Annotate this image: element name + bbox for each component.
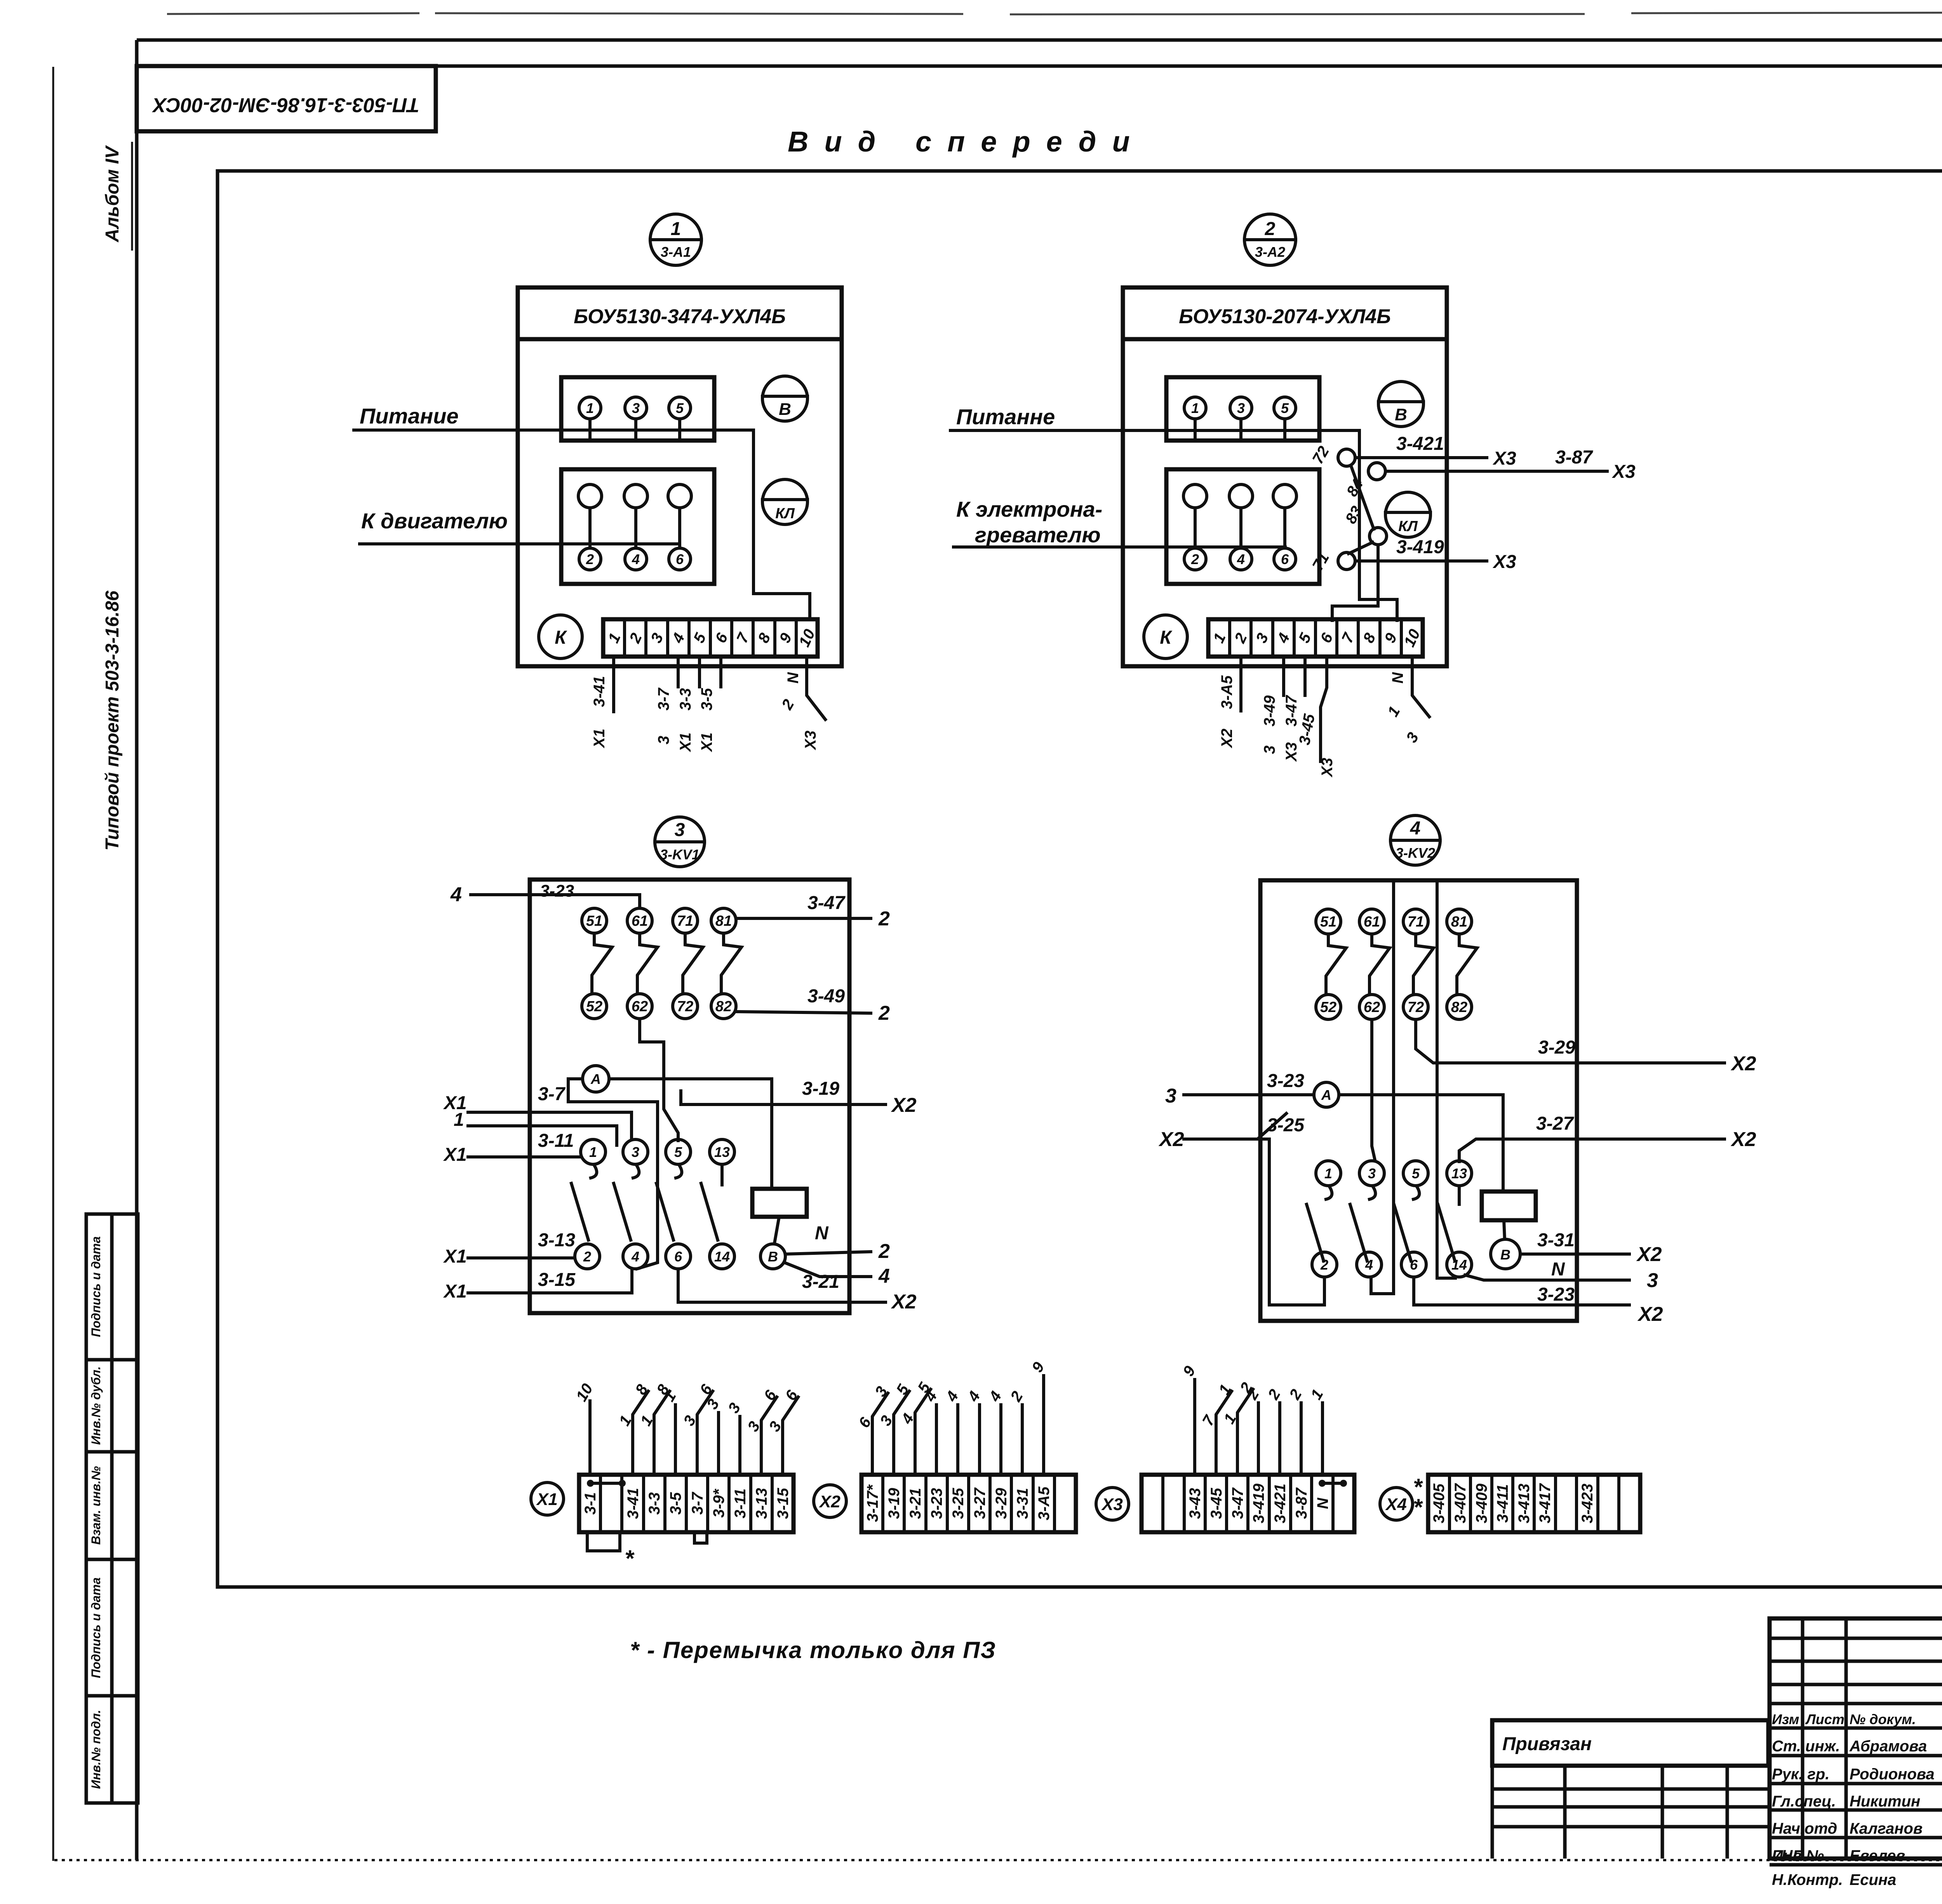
wire stub bbox=[717, 1413, 720, 1475]
bottom left hook wire bbox=[1269, 1277, 1324, 1305]
svg-text:3-47: 3-47 bbox=[807, 893, 846, 913]
svg-text:В: В bbox=[768, 1249, 778, 1265]
svg-text:3-87: 3-87 bbox=[1293, 1487, 1310, 1519]
svg-text:6: 6 bbox=[674, 1249, 682, 1265]
svg-text:3-15: 3-15 bbox=[774, 1488, 792, 1519]
breaker contact bbox=[1326, 934, 1346, 993]
lamp KL bbox=[1385, 492, 1430, 537]
svg-text:2: 2 bbox=[878, 1002, 890, 1024]
terminal 1 bbox=[1184, 397, 1206, 419]
svg-text:X3: X3 bbox=[1283, 742, 1300, 762]
svg-text:2: 2 bbox=[878, 908, 890, 930]
svg-text:3-17*: 3-17* bbox=[864, 1484, 881, 1522]
svg-text:82: 82 bbox=[1451, 999, 1467, 1016]
svg-text:3-5: 3-5 bbox=[667, 1492, 684, 1515]
small grid under privyazan bbox=[1492, 1766, 1770, 1859]
svg-text:71: 71 bbox=[677, 913, 693, 929]
svg-text:3-27: 3-27 bbox=[971, 1487, 988, 1519]
contact terminal 81 bbox=[1447, 909, 1472, 934]
relay 3-KV2 bubble bbox=[1390, 815, 1440, 865]
svg-text:3-411: 3-411 bbox=[1494, 1484, 1511, 1523]
svg-text:3-11: 3-11 bbox=[732, 1488, 749, 1518]
svg-text:3-3: 3-3 bbox=[677, 688, 694, 711]
breaker contact bbox=[592, 933, 612, 992]
connector X1 bubble bbox=[531, 1482, 564, 1515]
svg-text:3-49: 3-49 bbox=[807, 986, 845, 1007]
svg-text:4: 4 bbox=[631, 1249, 639, 1265]
svg-text:Лист: Лист bbox=[1805, 1711, 1845, 1727]
svg-text:6: 6 bbox=[1410, 1257, 1418, 1273]
wire stub bbox=[633, 1391, 648, 1475]
svg-text:X4: X4 bbox=[1385, 1495, 1407, 1514]
svg-text:X3: X3 bbox=[802, 731, 819, 751]
plain contact bbox=[578, 484, 602, 508]
blade bbox=[1307, 1204, 1324, 1261]
breaker contact bbox=[683, 933, 703, 992]
terminal 2 bbox=[579, 548, 601, 570]
terminal 3 bbox=[1230, 397, 1252, 419]
svg-text:82: 82 bbox=[715, 998, 732, 1015]
motor contacts box bbox=[561, 469, 714, 584]
wire stub bbox=[935, 1405, 938, 1475]
svg-text:3-А2: 3-А2 bbox=[1255, 244, 1285, 260]
plain contact bbox=[1273, 484, 1296, 508]
jumper X1 bbox=[587, 1480, 594, 1487]
wire stub bbox=[1042, 1376, 1045, 1475]
svg-text:3-KV2: 3-KV2 bbox=[1396, 845, 1435, 861]
wire stub bbox=[1300, 1403, 1303, 1475]
svg-text:БОУ5130-3474-УХЛ4Б: БОУ5130-3474-УХЛ4Б bbox=[574, 305, 786, 328]
relay contact terminal 5 bbox=[1403, 1161, 1428, 1186]
wire stub bbox=[1278, 1403, 1281, 1475]
svg-text:4: 4 bbox=[1365, 1257, 1373, 1273]
svg-text:3-47: 3-47 bbox=[1229, 1487, 1246, 1519]
wire stub bbox=[654, 1391, 670, 1475]
contact terminal 71 bbox=[1403, 909, 1428, 934]
breaker contact bbox=[637, 933, 658, 992]
breaker contact bbox=[1457, 934, 1477, 993]
power contacts box bbox=[1166, 377, 1319, 441]
svg-text:2: 2 bbox=[1265, 219, 1276, 239]
svg-text:3-41: 3-41 bbox=[591, 676, 608, 707]
svg-text:*: * bbox=[1413, 1494, 1423, 1520]
svg-text:3-11: 3-11 bbox=[538, 1131, 574, 1151]
blade bbox=[614, 1183, 631, 1240]
svg-text:X1: X1 bbox=[677, 733, 694, 753]
relay contact terminal 13 bbox=[1447, 1161, 1472, 1186]
svg-text:Изм: Изм bbox=[1772, 1711, 1799, 1727]
contact terminal 51 bbox=[582, 908, 607, 933]
lamp B bbox=[1378, 381, 1423, 427]
contact terminal 62 bbox=[627, 994, 652, 1019]
starter box 3-А2 bbox=[1123, 287, 1447, 666]
wires under strip dev2 bbox=[1239, 657, 1242, 711]
svg-text:N: N bbox=[1314, 1497, 1331, 1509]
svg-text:2: 2 bbox=[1320, 1257, 1328, 1273]
svg-text:X1: X1 bbox=[591, 729, 608, 749]
svg-text:3: 3 bbox=[632, 1144, 639, 1160]
hook bbox=[1326, 1186, 1332, 1199]
svg-text:БОУ5130-2074-УХЛ4Б: БОУ5130-2074-УХЛ4Б bbox=[1179, 305, 1391, 328]
svg-text:N: N bbox=[1551, 1259, 1565, 1280]
svg-text:К: К bbox=[1160, 627, 1173, 648]
wire 3-21 X2 bbox=[678, 1270, 886, 1302]
contact terminal 82 bbox=[1447, 995, 1472, 1019]
terminal 2 bbox=[1184, 548, 1206, 570]
svg-text:3-405: 3-405 bbox=[1430, 1483, 1448, 1523]
svg-text:62: 62 bbox=[1364, 999, 1380, 1016]
svg-text:N: N bbox=[815, 1223, 829, 1244]
hook bbox=[633, 1165, 639, 1178]
svg-text:Родионова: Родионова bbox=[1850, 1766, 1935, 1783]
svg-text:X2: X2 bbox=[1730, 1052, 1756, 1075]
svg-text:3-31: 3-31 bbox=[1014, 1488, 1031, 1519]
jumper X3 bbox=[1319, 1480, 1326, 1487]
svg-text:5: 5 bbox=[1412, 1165, 1420, 1181]
contactor K bbox=[1144, 615, 1187, 658]
svg-text:3-421: 3-421 bbox=[1396, 434, 1444, 454]
terminal 5 bbox=[669, 397, 691, 419]
svg-text:Альбом IV: Альбом IV bbox=[102, 145, 123, 242]
svg-text:К электрона-: К электрона- bbox=[956, 497, 1102, 521]
wire 3-421 to X3 bbox=[1355, 456, 1487, 459]
svg-text:3-49: 3-49 bbox=[1261, 695, 1278, 726]
wire stub bbox=[999, 1405, 1002, 1475]
relay 3-KV2 box bbox=[1260, 880, 1577, 1321]
svg-text:Нач.отд: Нач.отд bbox=[1772, 1820, 1837, 1837]
wire stub bbox=[978, 1405, 981, 1475]
svg-text:3-23: 3-23 bbox=[928, 1488, 945, 1519]
contact terminal 81 bbox=[711, 908, 736, 933]
svg-text:Подпись и дата: Подпись и дата bbox=[89, 1577, 103, 1678]
wire stub bbox=[783, 1397, 798, 1475]
wire stub bbox=[872, 1393, 888, 1475]
blade bbox=[1394, 1204, 1411, 1261]
svg-text:1: 1 bbox=[586, 400, 594, 416]
terminal 4 bbox=[1230, 548, 1252, 570]
hook bbox=[591, 1165, 597, 1178]
top band lower line bbox=[137, 64, 1942, 68]
svg-text:6: 6 bbox=[676, 551, 684, 567]
relay contact terminal 6 bbox=[666, 1244, 691, 1269]
contact terminal 52 bbox=[1316, 995, 1341, 1019]
svg-text:71: 71 bbox=[1408, 914, 1424, 930]
svg-text:13: 13 bbox=[1451, 1165, 1467, 1181]
svg-text:3-13: 3-13 bbox=[753, 1488, 770, 1519]
aux contact 72/84/83/71 of dev2 bbox=[1309, 443, 1387, 620]
wire stub bbox=[674, 1405, 677, 1475]
terminal 6 bbox=[669, 548, 691, 570]
wire 3-87 to X3 bbox=[1385, 470, 1607, 473]
wire stub bbox=[1237, 1389, 1253, 1475]
svg-text:Рук. гр.: Рук. гр. bbox=[1772, 1766, 1829, 1783]
svg-text:3: 3 bbox=[675, 820, 685, 840]
wire stub bbox=[1216, 1391, 1232, 1475]
svg-text:3-423: 3-423 bbox=[1579, 1484, 1596, 1523]
main frame left line bbox=[135, 40, 139, 1860]
svg-text:X2: X2 bbox=[1637, 1303, 1663, 1326]
svg-text:Питание: Питание bbox=[360, 404, 459, 428]
svg-text:51: 51 bbox=[1320, 914, 1336, 930]
hook bbox=[676, 1165, 682, 1178]
svg-text:3-87: 3-87 bbox=[1555, 447, 1593, 468]
plain contact bbox=[668, 484, 691, 508]
svg-text:X2: X2 bbox=[1636, 1243, 1662, 1266]
relay contact terminal 3 bbox=[1359, 1161, 1384, 1186]
wire 62 down to contact 3 bbox=[1372, 1019, 1375, 1160]
svg-text:4: 4 bbox=[450, 883, 462, 906]
contactor K bbox=[539, 615, 582, 658]
svg-text:3: 3 bbox=[1165, 1085, 1176, 1107]
svg-text:Есина: Есина bbox=[1850, 1871, 1896, 1888]
svg-text:3: 3 bbox=[655, 736, 672, 744]
svg-text:3-15: 3-15 bbox=[538, 1270, 576, 1290]
svg-text:3-29: 3-29 bbox=[993, 1488, 1010, 1519]
wire from A to coil bbox=[609, 1079, 772, 1189]
relay contact terminal 1 bbox=[1316, 1161, 1341, 1186]
connector X3 strip bbox=[1142, 1475, 1354, 1532]
svg-text:А: А bbox=[1321, 1087, 1331, 1103]
svg-text:В: В bbox=[779, 400, 791, 419]
bottom dashed frame line bbox=[54, 1859, 1942, 1861]
terminal strip 1..10 bbox=[603, 619, 818, 657]
contact terminal 71 bbox=[673, 908, 698, 933]
svg-text:Подпись и дата: Подпись и дата bbox=[89, 1236, 103, 1337]
wire 3-27 X2 bbox=[1459, 1139, 1724, 1162]
relay contact terminal 1 bbox=[581, 1139, 606, 1164]
svg-text:72: 72 bbox=[1408, 999, 1424, 1016]
wire stub bbox=[915, 1389, 931, 1475]
svg-text:4: 4 bbox=[632, 551, 640, 567]
svg-text:X2: X2 bbox=[1730, 1128, 1756, 1151]
svg-text:X1: X1 bbox=[443, 1246, 467, 1267]
privyazan box bbox=[1492, 1720, 1768, 1766]
svg-text:4: 4 bbox=[1410, 818, 1421, 839]
svg-text:Гл.спец.: Гл.спец. bbox=[1772, 1793, 1836, 1810]
contact terminal 82 bbox=[711, 994, 736, 1019]
svg-text:3-21: 3-21 bbox=[802, 1272, 839, 1292]
svg-text:3: 3 bbox=[632, 400, 640, 416]
svg-text:62: 62 bbox=[632, 998, 648, 1015]
svg-text:51: 51 bbox=[586, 913, 602, 929]
wire from A right to coil bbox=[1339, 1095, 1503, 1192]
relay contact terminal 5 bbox=[666, 1139, 691, 1164]
svg-text:X3: X3 bbox=[1319, 758, 1336, 778]
svg-text:5: 5 bbox=[676, 400, 684, 416]
small bracket under X1 cell 6 bbox=[694, 1532, 707, 1543]
svg-text:52: 52 bbox=[586, 998, 602, 1015]
coil bbox=[1482, 1192, 1536, 1220]
breaker contact bbox=[1413, 934, 1434, 993]
svg-text:№ докум.: № докум. bbox=[1850, 1711, 1916, 1727]
svg-text:1: 1 bbox=[671, 219, 681, 239]
svg-text:Типовой проект 503-3-16.86: Типовой проект 503-3-16.86 bbox=[102, 591, 123, 850]
svg-text:3-19: 3-19 bbox=[886, 1488, 903, 1519]
svg-text:3-21: 3-21 bbox=[907, 1488, 924, 1519]
wire stub bbox=[894, 1391, 909, 1475]
annunciator A bbox=[1314, 1082, 1339, 1107]
blade bbox=[656, 1183, 673, 1240]
svg-text:3-27: 3-27 bbox=[1536, 1113, 1574, 1134]
svg-text:3-25: 3-25 bbox=[950, 1488, 967, 1519]
contact terminal 61 bbox=[1359, 909, 1384, 934]
breaker contact bbox=[1369, 934, 1390, 993]
svg-text:N: N bbox=[1389, 672, 1406, 683]
svg-text:2: 2 bbox=[583, 1249, 591, 1265]
svg-text:Калганов: Калганов bbox=[1850, 1820, 1923, 1837]
wire stub bbox=[1021, 1405, 1024, 1475]
svg-text:3: 3 bbox=[1237, 400, 1245, 416]
svg-text:* - Перемычка только для ПЗ: * - Перемычка только для ПЗ bbox=[630, 1637, 996, 1663]
motor contacts box bbox=[1166, 469, 1319, 584]
svg-text:X3: X3 bbox=[1101, 1495, 1123, 1514]
svg-text:Никитин: Никитин bbox=[1850, 1793, 1920, 1810]
svg-text:X2: X2 bbox=[1218, 729, 1236, 749]
svg-text:Инв.№ подл.: Инв.№ подл. bbox=[89, 1710, 103, 1789]
reference bubble 3-А1 bbox=[650, 214, 701, 265]
connector X3 bubble bbox=[1096, 1488, 1129, 1520]
svg-text:3: 3 bbox=[1261, 746, 1278, 754]
wire stub bbox=[1321, 1403, 1324, 1475]
svg-text:К: К bbox=[555, 627, 567, 648]
connector X1 strip bbox=[579, 1475, 794, 1532]
svg-text:72: 72 bbox=[677, 998, 693, 1015]
svg-text:3-41: 3-41 bbox=[625, 1488, 642, 1519]
relay contact terminal 6 bbox=[1401, 1252, 1426, 1277]
connector X4 strip bbox=[1428, 1475, 1640, 1532]
plain contact bbox=[1229, 484, 1253, 508]
wire 3-29 X2 bbox=[1416, 1019, 1724, 1063]
svg-text:81: 81 bbox=[715, 913, 732, 929]
svg-text:3-5: 3-5 bbox=[698, 688, 715, 711]
jumper bracket under X1 cells 1-2 bbox=[587, 1532, 620, 1551]
plain contact bbox=[1183, 484, 1207, 508]
svg-text:3-А1: 3-А1 bbox=[661, 244, 691, 260]
terminal strip 1..10 bbox=[1208, 619, 1423, 657]
svg-text:3: 3 bbox=[1368, 1165, 1376, 1181]
svg-text:3-419: 3-419 bbox=[1250, 1483, 1267, 1523]
svg-text:3-419: 3-419 bbox=[1396, 537, 1444, 557]
svg-text:3-9*: 3-9* bbox=[710, 1488, 727, 1518]
wire stub bbox=[956, 1405, 959, 1475]
svg-text:1: 1 bbox=[1324, 1165, 1332, 1181]
contact terminal 61 bbox=[627, 908, 652, 933]
terminal B bbox=[1491, 1239, 1520, 1269]
svg-text:Инв №: Инв № bbox=[1772, 1847, 1824, 1864]
top-left document stamp box bbox=[137, 66, 436, 131]
terminal 5 bbox=[1274, 397, 1296, 419]
wire from 62 down to contact 5 bbox=[640, 1019, 678, 1141]
svg-text:3-25: 3-25 bbox=[1267, 1115, 1305, 1136]
revision table columns bbox=[1803, 1618, 1942, 1859]
wire 3-47 to 2 bbox=[736, 917, 871, 920]
svg-text:X2: X2 bbox=[891, 1291, 917, 1313]
wire 3-49 to 2 bbox=[736, 1012, 871, 1013]
left margin stamp boxes bbox=[86, 1214, 138, 1803]
svg-text:3-А5: 3-А5 bbox=[1218, 675, 1236, 709]
svg-text:3-1: 3-1 bbox=[582, 1492, 599, 1515]
relay contact terminal 2 bbox=[1312, 1252, 1337, 1277]
terminal 6 bbox=[1274, 548, 1296, 570]
svg-text:3-31: 3-31 bbox=[1537, 1230, 1575, 1251]
lamp B bbox=[762, 376, 807, 421]
svg-text:Н.Контр.: Н.Контр. bbox=[1772, 1871, 1843, 1888]
svg-text:5: 5 bbox=[674, 1144, 682, 1160]
svg-text:X2: X2 bbox=[818, 1492, 840, 1511]
svg-text:В: В bbox=[1500, 1247, 1510, 1263]
svg-text:3-7: 3-7 bbox=[538, 1084, 566, 1104]
svg-text:X2: X2 bbox=[891, 1094, 917, 1117]
contact terminal 72 bbox=[1403, 995, 1428, 1019]
svg-text:1: 1 bbox=[589, 1144, 597, 1160]
connector X2 bubble bbox=[814, 1485, 846, 1517]
svg-text:3-409: 3-409 bbox=[1473, 1483, 1490, 1523]
svg-text:1: 1 bbox=[1191, 400, 1199, 416]
vertical bus wires bbox=[1371, 880, 1394, 1294]
reference bubble 3-А2 bbox=[1244, 214, 1296, 265]
svg-text:*: * bbox=[625, 1545, 635, 1571]
svg-text:X2: X2 bbox=[1158, 1128, 1184, 1151]
relay contact terminal 2 bbox=[575, 1244, 600, 1269]
svg-text:К двигателю: К двигателю bbox=[361, 509, 508, 533]
svg-text:3-А5: 3-А5 bbox=[1035, 1486, 1053, 1520]
svg-text:3-19: 3-19 bbox=[802, 1078, 839, 1099]
svg-text:гревателю: гревателю bbox=[975, 523, 1101, 547]
svg-text:Вид спереди: Вид спереди bbox=[788, 125, 1146, 158]
svg-text:X1: X1 bbox=[443, 1144, 467, 1165]
wire stub bbox=[588, 1401, 592, 1475]
svg-text:3-29: 3-29 bbox=[1538, 1037, 1575, 1058]
svg-text:3-23: 3-23 bbox=[540, 881, 574, 901]
svg-text:Абрамова: Абрамова bbox=[1849, 1738, 1927, 1755]
svg-text:2: 2 bbox=[1191, 551, 1199, 567]
svg-text:3-23: 3-23 bbox=[1267, 1071, 1304, 1091]
svg-text:3-23: 3-23 bbox=[1537, 1284, 1575, 1305]
annunciator A bbox=[583, 1066, 609, 1092]
relay contact terminal 4 bbox=[623, 1244, 648, 1269]
svg-text:52: 52 bbox=[1320, 999, 1336, 1016]
svg-text:14: 14 bbox=[1451, 1257, 1467, 1273]
svg-text:2: 2 bbox=[878, 1240, 890, 1263]
wire stub bbox=[1257, 1403, 1260, 1475]
connector X4 bubble bbox=[1380, 1488, 1413, 1520]
contact terminal 72 bbox=[673, 994, 698, 1019]
svg-text:3-3: 3-3 bbox=[646, 1492, 663, 1515]
svg-text:3-7: 3-7 bbox=[655, 687, 672, 711]
svg-text:3-7: 3-7 bbox=[689, 1491, 706, 1515]
svg-text:X3: X3 bbox=[1611, 462, 1636, 482]
wire 3-31 X2 bbox=[1520, 1252, 1629, 1256]
hook bbox=[1369, 1186, 1375, 1199]
contact terminal 51 bbox=[1316, 909, 1341, 934]
plain contact bbox=[624, 484, 647, 508]
relay contact terminal 13 bbox=[710, 1139, 734, 1164]
title block outer bbox=[1770, 1618, 1942, 1859]
svg-text:КЛ: КЛ bbox=[1398, 518, 1418, 535]
svg-text:ТП-503-3-16.86-ЭМ-02-00СХ: ТП-503-3-16.86-ЭМ-02-00СХ bbox=[151, 94, 419, 116]
svg-text:3-43: 3-43 bbox=[1187, 1488, 1204, 1519]
svg-text:X1: X1 bbox=[536, 1490, 558, 1509]
hook bbox=[1413, 1186, 1419, 1199]
starter box 3-А1 bbox=[518, 287, 842, 666]
svg-text:Взам. инв.№: Взам. инв.№ bbox=[89, 1466, 103, 1545]
contact terminal 62 bbox=[1359, 995, 1384, 1019]
svg-text:X3: X3 bbox=[1492, 448, 1516, 469]
blade bbox=[1350, 1204, 1367, 1261]
svg-text:N: N bbox=[785, 672, 802, 683]
svg-text:Привязан: Привязан bbox=[1502, 1734, 1592, 1754]
relay 3-KV1 box bbox=[530, 880, 849, 1313]
